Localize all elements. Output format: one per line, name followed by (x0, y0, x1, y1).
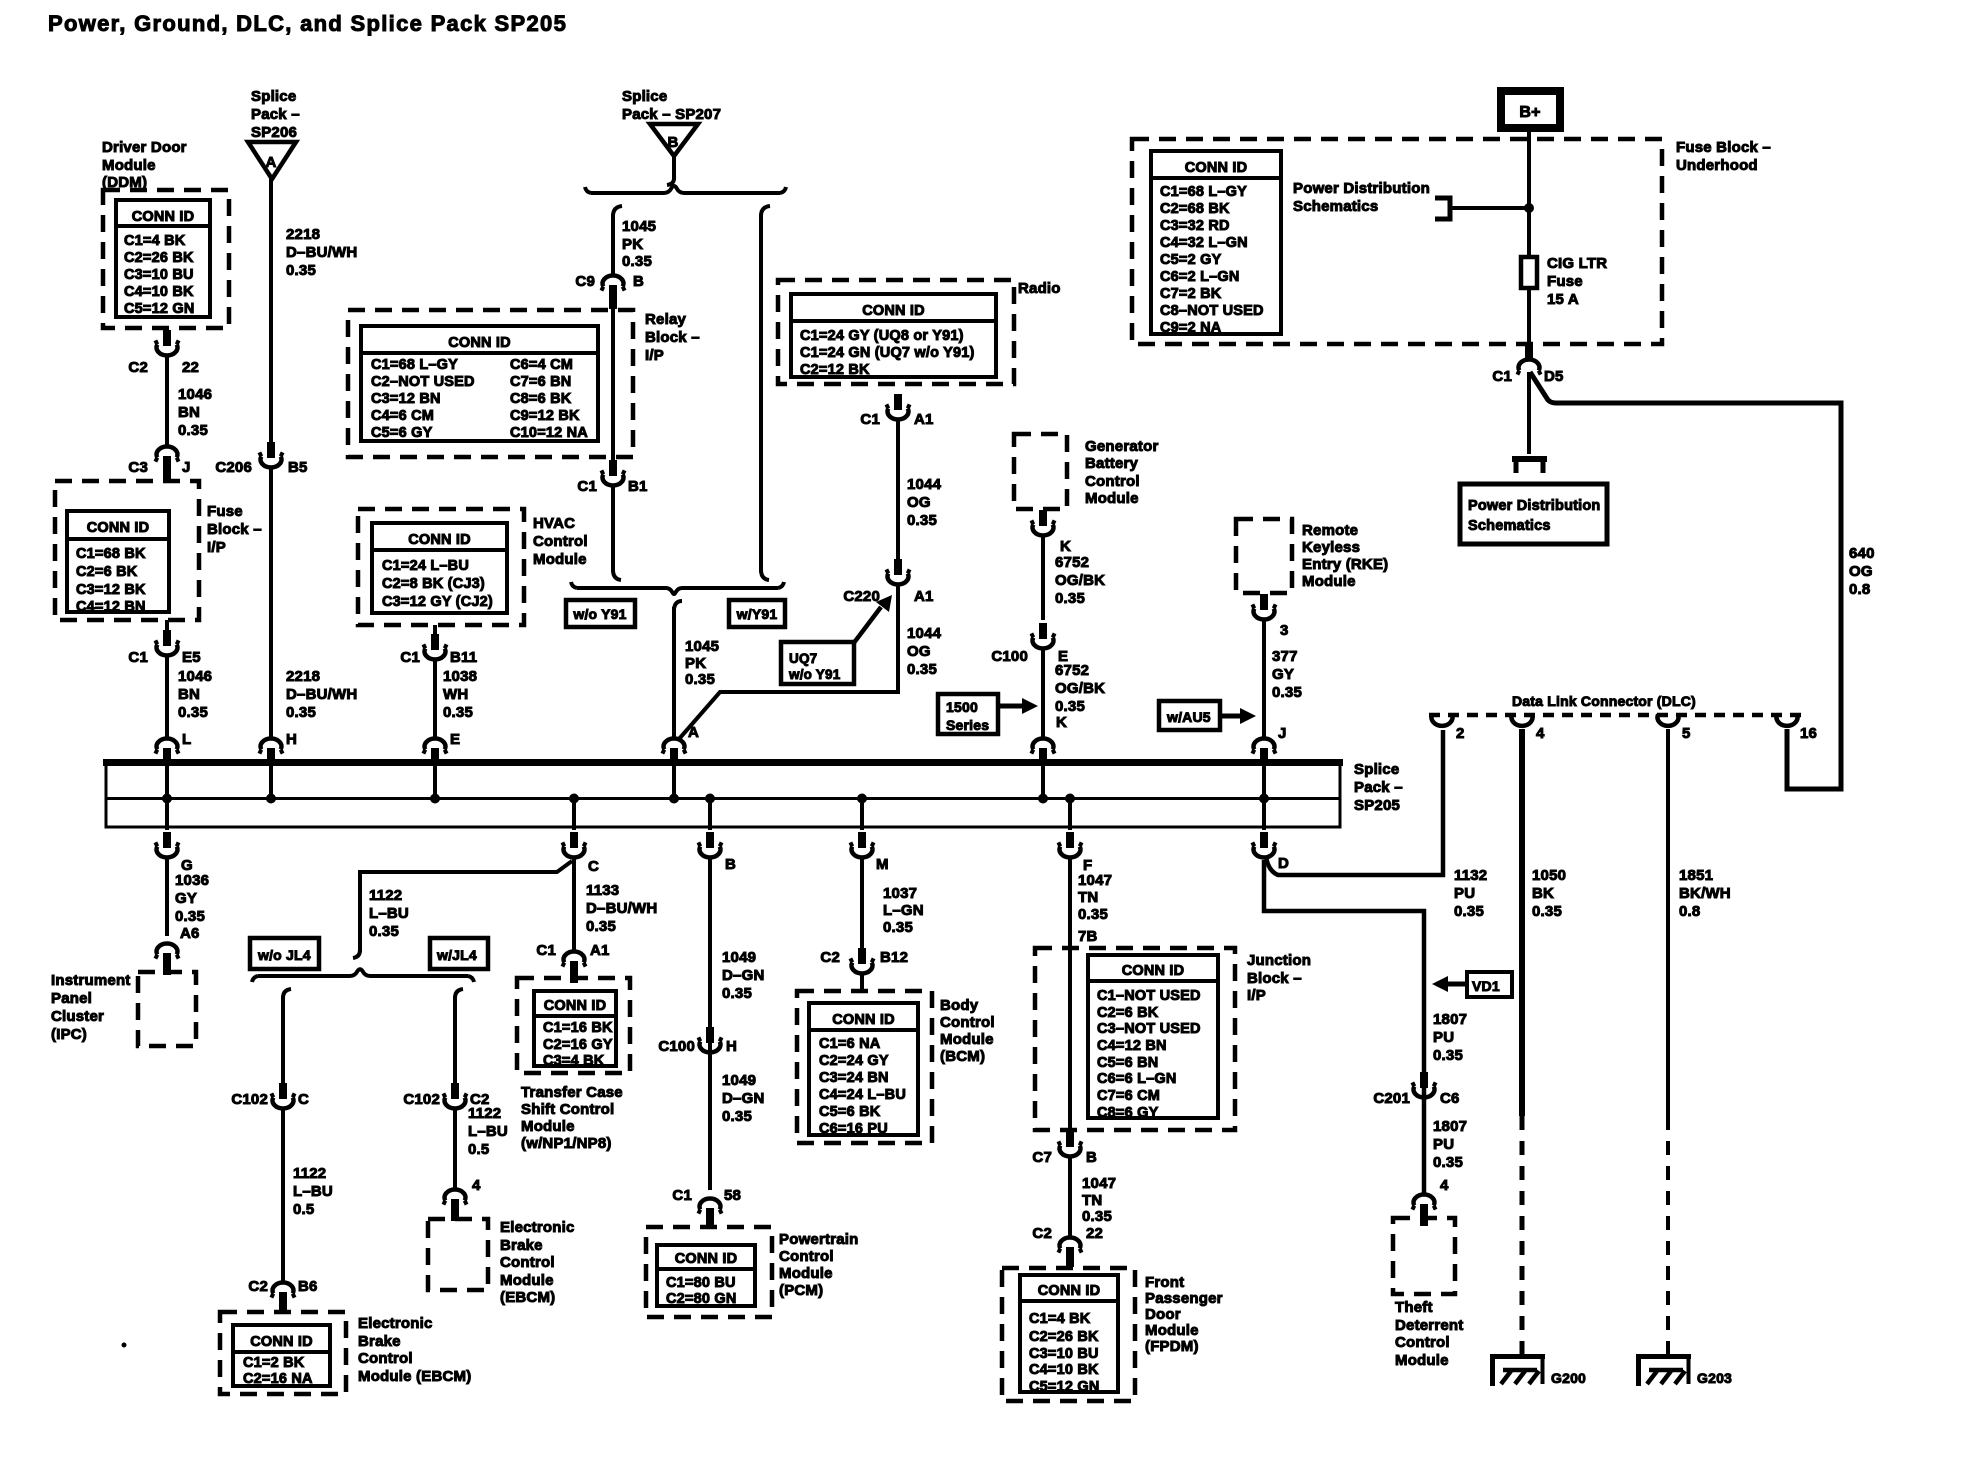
svg-text:Deterrent: Deterrent (1395, 1317, 1464, 1334)
svg-text:C206: C206 (215, 459, 252, 476)
svg-text:1049: 1049 (722, 949, 756, 966)
svg-text:K: K (1056, 714, 1067, 731)
FPDM CONN ID table (1020, 1275, 1118, 1395)
svg-text:Block –: Block – (1247, 970, 1302, 987)
fuse block IP dashed box (55, 481, 199, 620)
instrument panel cluster dashed box (138, 972, 196, 1046)
wire 1037 L-GN down to BCM (860, 858, 864, 952)
svg-text:Power, Ground, DLC, and Splice: Power, Ground, DLC, and Splice Pack SP20… (48, 11, 567, 36)
svg-text:Door: Door (1145, 1306, 1181, 1323)
generator battery control module dashed box (1014, 434, 1067, 509)
svg-text:CONN ID: CONN ID (250, 1334, 313, 1350)
bus feed wire E (433, 766, 437, 798)
svg-text:1049: 1049 (722, 1072, 756, 1089)
page dot artifact (122, 1343, 127, 1348)
svg-text:D–BU/WH: D–BU/WH (286, 244, 357, 261)
svg-text:C7=2 BK: C7=2 BK (1160, 286, 1222, 302)
svg-text:D–BU/WH: D–BU/WH (586, 900, 657, 917)
wire from SP207 apex with curl (667, 156, 674, 185)
svg-text:Passenger: Passenger (1145, 1290, 1223, 1307)
w/Y91 option box (729, 600, 785, 627)
wire 1044 OG (896, 420, 900, 560)
connector C1 pin E5 (128, 620, 200, 666)
svg-text:Power Distribution: Power Distribution (1468, 498, 1601, 514)
wire from fuse to connector C1 D5 (1527, 288, 1531, 346)
svg-text:B: B (1086, 1149, 1097, 1166)
svg-text:w/o Y91: w/o Y91 (788, 667, 841, 682)
BCM CONN ID table (809, 1003, 918, 1137)
svg-text:Theft: Theft (1395, 1299, 1433, 1316)
svg-text:1045: 1045 (685, 638, 719, 655)
svg-text:C100: C100 (658, 1038, 695, 1055)
svg-text:Module: Module (521, 1118, 575, 1135)
wire label 2218 D-BU/WH 0.35 (286, 226, 357, 279)
svg-text:A1: A1 (914, 588, 934, 605)
svg-text:VD1: VD1 (1472, 978, 1500, 994)
svg-text:w/JL4: w/JL4 (436, 947, 477, 963)
wire label 6752 OG/BK 0.35 (1055, 554, 1105, 607)
svg-text:0.35: 0.35 (178, 422, 208, 439)
svg-text:C1=24 L–BU: C1=24 L–BU (382, 558, 469, 574)
svg-text:L–BU: L–BU (293, 1183, 333, 1200)
JL4 splice bar (252, 950, 474, 982)
wire label 1044 OG 0.35 lower (907, 625, 942, 678)
svg-text:2218: 2218 (286, 668, 320, 685)
svg-text:G200: G200 (1551, 1370, 1586, 1386)
svg-text:1807: 1807 (1433, 1118, 1467, 1135)
connector C2 pin B12 (820, 948, 908, 973)
connector C3 pin J into Fuse Block IP (128, 447, 190, 480)
svg-text:J: J (1278, 725, 1287, 742)
wire 1044 OG routed to terminal A (679, 585, 898, 739)
svg-text:Radio: Radio (1018, 280, 1061, 297)
svg-text:I/P: I/P (1247, 987, 1266, 1004)
splice pack terminal L (155, 731, 191, 765)
connector pin A6 into IPC (155, 925, 199, 975)
svg-text:BN: BN (178, 404, 200, 421)
svg-text:7B: 7B (1078, 928, 1098, 945)
wire label 6752 OG/BK 0.35 lower (1055, 662, 1105, 715)
junction dot at x=167 (162, 794, 172, 804)
EBCM CONN ID table (233, 1325, 330, 1387)
svg-text:B: B (633, 273, 644, 290)
svg-text:C2=26 BK: C2=26 BK (124, 250, 194, 266)
svg-text:OG: OG (1849, 563, 1873, 580)
bus feed wire L (165, 766, 169, 798)
svg-text:M: M (876, 856, 889, 873)
svg-text:HVAC: HVAC (533, 515, 575, 532)
svg-text:C6=2 L–GN: C6=2 L–GN (1160, 269, 1240, 285)
svg-text:0.8: 0.8 (1679, 903, 1700, 920)
svg-text:0.35: 0.35 (1433, 1154, 1463, 1171)
connector C201 pin C6 (1373, 1072, 1459, 1107)
transfer case dashed box (517, 978, 630, 1073)
wire 6752 OG/BK upper (1041, 536, 1045, 620)
splice pack terminal D (1252, 832, 1289, 872)
svg-text:Electronic: Electronic (358, 1315, 433, 1332)
fuse block underhood CONN ID table (1151, 151, 1281, 336)
junction block IP dashed box (1035, 948, 1235, 1130)
svg-text:Module: Module (102, 157, 156, 174)
power distribution bracket (1435, 198, 1450, 219)
wire label 1049 D-GN 0.35 (722, 949, 764, 1002)
module label Front Passenger Door Module (FPDM) (1145, 1274, 1223, 1355)
svg-text:58: 58 (724, 1187, 741, 1204)
svg-text:0.35: 0.35 (586, 918, 616, 935)
wire 2218 D-BU/WH from SP206 (269, 179, 273, 445)
svg-text:SP206: SP206 (251, 124, 297, 141)
wire from bracket to B+ feed (1450, 206, 1529, 210)
svg-text:Block –: Block – (207, 521, 262, 538)
svg-text:BN: BN (178, 686, 200, 703)
svg-text:1807: 1807 (1433, 1011, 1467, 1028)
wire from D to theft deterrent module (1264, 860, 1424, 1196)
svg-text:C9=2 NA: C9=2 NA (1160, 320, 1222, 336)
module label Transfer Case Shift Control Module (521, 1084, 623, 1152)
svg-text:C201: C201 (1373, 1090, 1410, 1107)
svg-text:C1=6 NA: C1=6 NA (819, 1036, 881, 1052)
svg-text:C2–NOT USED: C2–NOT USED (371, 374, 475, 390)
svg-text:C: C (298, 1091, 309, 1108)
svg-text:D–GN: D–GN (722, 967, 764, 984)
splice pack SP205 bus bar (103, 763, 1343, 828)
svg-text:0.35: 0.35 (722, 985, 752, 1002)
svg-text:C220: C220 (843, 588, 880, 605)
svg-text:Module: Module (500, 1272, 554, 1289)
svg-text:0.35: 0.35 (685, 671, 715, 688)
svg-text:CONN ID: CONN ID (544, 998, 607, 1014)
svg-text:Module: Module (1302, 573, 1356, 590)
svg-text:C8=6 BK: C8=6 BK (510, 391, 572, 407)
connector C2 pin B6 into EBCM (248, 1278, 317, 1314)
junction dot at x=1043 (1038, 794, 1048, 804)
power distribution schematics box (1460, 484, 1607, 544)
svg-text:C3–NOT USED: C3–NOT USED (1097, 1021, 1201, 1037)
svg-text:C2=6 BK: C2=6 BK (1097, 1005, 1159, 1021)
wire 1047 TN down to junction block (1068, 858, 1072, 1130)
off-page connector bracket (1512, 459, 1547, 473)
svg-text:Splice: Splice (1354, 761, 1399, 778)
svg-text:0.5: 0.5 (468, 1141, 489, 1158)
connector C102 pin C2 (403, 1083, 489, 1108)
svg-text:Panel: Panel (51, 990, 92, 1007)
svg-text:Pack –: Pack – (1354, 779, 1403, 796)
svg-text:C1=80 BU: C1=80 BU (666, 1275, 736, 1291)
svg-text:1500: 1500 (946, 699, 978, 715)
svg-text:L–GN: L–GN (883, 902, 924, 919)
svg-text:1122: 1122 (369, 887, 402, 904)
svg-text:1133: 1133 (586, 882, 619, 899)
splice pack SP206 triangle A (248, 142, 296, 179)
svg-text:0.35: 0.35 (1454, 903, 1484, 920)
DLC pin 2 (1432, 715, 1465, 743)
svg-text:SP205: SP205 (1354, 797, 1400, 814)
w/AU5 callout box (1159, 701, 1220, 730)
junction dot at x=862 (857, 794, 867, 804)
svg-text:C1–NOT USED: C1–NOT USED (1097, 988, 1201, 1004)
branch wire to JL4 splice (360, 861, 572, 952)
svg-text:C1: C1 (1492, 368, 1512, 385)
svg-text:C1: C1 (128, 649, 148, 666)
arrow from VD1 box to wire (1444, 982, 1467, 987)
svg-text:L: L (182, 731, 191, 748)
svg-text:C5=6 GY: C5=6 GY (371, 425, 433, 441)
svg-text:PU: PU (1433, 1029, 1454, 1046)
svg-text:Splice: Splice (251, 88, 296, 105)
module label Theft Deterrent Control Module (1395, 1299, 1464, 1369)
svg-text:22: 22 (182, 359, 199, 376)
svg-text:(PCM): (PCM) (779, 1282, 823, 1299)
svg-text:C6: C6 (1440, 1090, 1460, 1107)
junction dot at x=574 (569, 794, 579, 804)
svg-text:C10=12 NA: C10=12 NA (510, 425, 588, 441)
svg-text:22: 22 (1086, 1225, 1103, 1242)
bus tap wire M (860, 798, 864, 830)
svg-text:0.35: 0.35 (1272, 684, 1302, 701)
relay block IP dashed box (348, 310, 633, 457)
wire label 1044 OG 0.35 (907, 476, 942, 529)
svg-text:C1: C1 (672, 1187, 692, 1204)
module label Electronic Brake Control Module (EBCM) right (500, 1219, 575, 1306)
w/o Y91 option box (566, 600, 635, 627)
svg-text:C2=24 GY: C2=24 GY (819, 1053, 889, 1069)
svg-text:Block –: Block – (645, 329, 700, 346)
svg-text:B6: B6 (298, 1278, 318, 1295)
fuse block IP CONN ID table (67, 511, 169, 615)
svg-text:C3=32 RD: C3=32 RD (1160, 218, 1230, 234)
svg-text:C9: C9 (575, 273, 595, 290)
wire label 1851 BK/WH 0.8 (1679, 867, 1731, 920)
wire label 1122 L-BU 0.35 (369, 887, 409, 940)
svg-text:PK: PK (622, 236, 643, 253)
svg-text:0.35: 0.35 (369, 923, 399, 940)
connector pin 4 into theft module (1412, 1177, 1449, 1226)
module label Powertrain Control Module (PCM) (779, 1231, 859, 1299)
svg-text:0.35: 0.35 (443, 704, 473, 721)
svg-text:Schematics: Schematics (1468, 518, 1551, 534)
module label Electronic Brake Control Module (EBCM) (358, 1315, 471, 1385)
svg-text:Entry (RKE): Entry (RKE) (1302, 556, 1388, 573)
module label Remote Keyless Entry (RKE) Module (1302, 522, 1388, 590)
svg-text:(EBCM): (EBCM) (500, 1289, 555, 1306)
svg-text:C2: C2 (128, 359, 148, 376)
svg-text:Module: Module (533, 551, 587, 568)
svg-text:D–GN: D–GN (722, 1090, 764, 1107)
svg-text:4: 4 (1536, 725, 1545, 742)
junction dot at x=1264 (1259, 794, 1269, 804)
wire label 1807 PU 0.35 (1433, 1011, 1467, 1064)
wire label 1122 L-BU 0.5 (293, 1165, 333, 1218)
ground G200 (1490, 1354, 1586, 1386)
svg-text:E5: E5 (182, 649, 201, 666)
module label Body Control Module (BCM) (940, 997, 995, 1065)
svg-text:Remote: Remote (1302, 522, 1358, 539)
svg-text:C3: C3 (128, 459, 148, 476)
svg-text:C1: C1 (536, 942, 556, 959)
svg-text:Module (EBCM): Module (EBCM) (358, 1368, 471, 1385)
svg-text:C102: C102 (403, 1091, 440, 1108)
svg-text:3: 3 (1280, 622, 1289, 639)
svg-text:Front: Front (1145, 1274, 1184, 1291)
svg-text:J: J (182, 459, 191, 476)
svg-text:K: K (1060, 538, 1071, 555)
wire label 1047 TN 0.35 7B (1078, 872, 1112, 945)
junction dot at x=435 (430, 794, 440, 804)
svg-text:2218: 2218 (286, 226, 320, 243)
fuse CIG LTR 15A (1521, 255, 1607, 308)
radio CONN ID table (791, 294, 996, 378)
junction dot on B+ wire (1524, 203, 1534, 213)
svg-text:Driver Door: Driver Door (102, 139, 187, 156)
svg-text:0.35: 0.35 (883, 919, 913, 936)
svg-text:1044: 1044 (907, 625, 942, 642)
svg-text:Generator: Generator (1085, 438, 1159, 455)
svg-text:Shift Control: Shift Control (521, 1101, 614, 1118)
svg-text:0.35: 0.35 (1532, 903, 1562, 920)
connector pin 3 below RKE module (1252, 594, 1288, 639)
svg-text:L–BU: L–BU (468, 1123, 508, 1140)
connector C1 pin B11 (400, 625, 477, 666)
svg-text:TN: TN (1082, 1192, 1102, 1209)
splice pack SP207 label (622, 88, 721, 123)
svg-text:CIG LTR: CIG LTR (1547, 255, 1607, 272)
svg-text:A1: A1 (590, 942, 610, 959)
connector C1 pin D5 (1492, 344, 1563, 385)
svg-text:1132: 1132 (1454, 867, 1487, 884)
svg-text:Control: Control (500, 1254, 555, 1271)
svg-text:C3=10 BU: C3=10 BU (1029, 1346, 1099, 1362)
svg-text:C3=10 BU: C3=10 BU (124, 267, 194, 283)
bus feed wire J (1262, 766, 1266, 798)
svg-text:C100: C100 (991, 648, 1028, 665)
svg-text:640: 640 (1849, 545, 1875, 562)
svg-text:Junction: Junction (1247, 952, 1311, 969)
w/o JL4 option box (250, 938, 319, 969)
module label Instrument Panel Cluster (IPC) (51, 972, 131, 1043)
connector C100 pin E (991, 623, 1068, 665)
svg-text:A: A (265, 154, 276, 171)
svg-text:Control: Control (940, 1014, 995, 1031)
bus feed wire H (269, 766, 273, 798)
wire label 1047 TN 0.35 lower (1082, 1175, 1116, 1225)
B+ power feed box (1501, 91, 1560, 128)
svg-text:0.35: 0.35 (1055, 590, 1085, 607)
svg-text:BK: BK (1532, 885, 1554, 902)
svg-text:C4=12 BN: C4=12 BN (76, 599, 146, 615)
svg-text:GY: GY (175, 890, 197, 907)
theft deterrent control module dashed box (1393, 1218, 1455, 1294)
wire 1122 L-BU to EBCM (281, 1109, 285, 1281)
svg-text:1038: 1038 (443, 668, 477, 685)
svg-text:0.35: 0.35 (175, 908, 205, 925)
svg-text:B5: B5 (288, 459, 308, 476)
svg-text:1122: 1122 (293, 1165, 326, 1182)
svg-text:0.35: 0.35 (1082, 1208, 1112, 1225)
svg-text:1046: 1046 (178, 668, 212, 685)
svg-text:I/P: I/P (207, 539, 226, 556)
wire 1122 L-BU to EBCM w/JL4 (453, 1109, 457, 1188)
svg-text:E: E (450, 731, 460, 748)
wire label 1046 BN 0.35 lower (178, 668, 212, 721)
FPDM dashed box (1002, 1268, 1135, 1401)
svg-text:w/o Y91: w/o Y91 (572, 606, 626, 622)
svg-text:C1=68 L–GY: C1=68 L–GY (371, 357, 458, 373)
svg-text:Series: Series (946, 717, 989, 733)
PCM dashed box (646, 1227, 772, 1317)
splice pack terminal M (850, 832, 888, 873)
wire label 640 OG 0.8 (1849, 545, 1875, 598)
connector C220 pin A1 (843, 559, 933, 605)
HVAC control module dashed box (358, 509, 524, 625)
svg-text:C8=6 GY: C8=6 GY (1097, 1105, 1159, 1121)
svg-text:0.35: 0.35 (1055, 698, 1085, 715)
svg-text:I/P: I/P (645, 347, 664, 364)
splice pack terminal B (698, 832, 736, 873)
svg-text:B11: B11 (450, 649, 477, 666)
svg-text:C6=16 PU: C6=16 PU (819, 1121, 888, 1137)
svg-text:1047: 1047 (1082, 1175, 1116, 1192)
svg-text:CONN ID: CONN ID (132, 209, 195, 225)
connector C1 pin A1 below radio (860, 394, 933, 428)
BCM dashed box (797, 991, 932, 1143)
svg-text:0.35: 0.35 (286, 704, 316, 721)
svg-text:C: C (588, 858, 599, 875)
wire label 1049 D-GN 0.35 lower (722, 1072, 764, 1125)
svg-text:Keyless: Keyless (1302, 539, 1360, 556)
svg-text:6752: 6752 (1055, 662, 1089, 679)
svg-text:CONN ID: CONN ID (408, 532, 471, 548)
wire 1036 GY to IPC (165, 858, 169, 936)
wire label 1045 PK 0.35 left branch (622, 218, 656, 270)
splice pack SP207 triangle B (650, 124, 698, 156)
svg-text:C3=24 BN: C3=24 BN (819, 1070, 889, 1086)
svg-text:1047: 1047 (1078, 872, 1112, 889)
svg-text:C1=24 GN (UQ7 w/o Y91): C1=24 GN (UQ7 w/o Y91) (800, 345, 975, 361)
power distribution schematics reference label (1293, 180, 1430, 215)
svg-text:0.8: 0.8 (1849, 581, 1870, 598)
svg-text:Splice: Splice (622, 88, 667, 105)
svg-text:BK/WH: BK/WH (1679, 885, 1731, 902)
PCM CONN ID table (657, 1245, 755, 1307)
junction block CONN ID table (1088, 955, 1218, 1121)
svg-text:PU: PU (1433, 1136, 1454, 1153)
svg-text:C4=32 L–GN: C4=32 L–GN (1160, 235, 1248, 251)
svg-text:16: 16 (1800, 725, 1817, 742)
connector pin K below generator module (1031, 510, 1071, 555)
svg-text:C5=6 BN: C5=6 BN (1097, 1055, 1158, 1071)
splice pack terminal E (423, 731, 460, 765)
connector C2 pin 22 (128, 330, 199, 376)
svg-text:C2=16 NA: C2=16 NA (243, 1371, 313, 1387)
svg-text:Schematics: Schematics (1293, 198, 1378, 215)
connector C206 pin B5 (215, 442, 307, 476)
svg-text:C4=10 BK: C4=10 BK (1029, 1362, 1099, 1378)
svg-text:Fuse: Fuse (1547, 273, 1583, 290)
wire label 1036 GY 0.35 (175, 872, 209, 925)
wire 1046 BN from DDM to fuse block (165, 356, 169, 445)
connector C9 pin B into relay block (575, 273, 644, 309)
svg-text:CONN ID: CONN ID (675, 1251, 738, 1267)
svg-text:CONN ID: CONN ID (448, 335, 511, 351)
EBCM w/JL4 dashed box (428, 1219, 488, 1290)
svg-text:C7=6 CM: C7=6 CM (1097, 1088, 1160, 1104)
svg-text:Electronic: Electronic (500, 1219, 575, 1236)
svg-text:1046: 1046 (178, 386, 212, 403)
svg-text:1122: 1122 (468, 1105, 501, 1122)
svg-text:GY: GY (1272, 666, 1294, 683)
svg-text:C1=2 BK: C1=2 BK (243, 1355, 305, 1371)
svg-text:C7=6 BN: C7=6 BN (510, 374, 571, 390)
